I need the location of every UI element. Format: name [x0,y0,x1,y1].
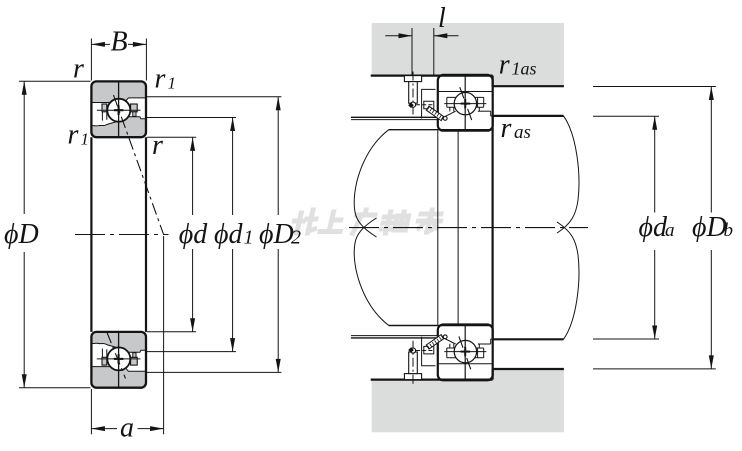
svg-text:1as: 1as [512,59,537,79]
shaft break curves left [354,130,389,237]
contact angle line [114,95,164,235]
svg-text:ϕd: ϕd [179,219,208,250]
a dimension [90,389,92,434]
phid dimension [147,136,196,138]
shang [320,212,345,232]
shaft sleeve lines (left of bearing) [351,116,438,118]
housing lower block [372,369,564,432]
shaft seat lines [389,129,493,131]
svg-text:ϕD: ϕD [4,219,39,250]
svg-text:l: l [438,3,446,34]
svg-text:r: r [68,120,79,151]
phi Db dimension [593,86,716,88]
phi da dimension [593,115,659,117]
svg-text:a: a [120,412,134,443]
right bottom bearing [438,325,493,381]
B dimension [90,39,92,81]
svg-text:r: r [152,130,163,161]
svg-text:1: 1 [81,130,90,149]
phid1 dimension [147,117,236,119]
shaft shoulder surfaces [493,115,564,117]
svg-text:ϕd: ϕd [214,219,243,250]
left bottom bearing [91,332,146,388]
oil nozzle top / bottom [404,72,447,121]
contact stub right top [460,87,473,122]
bore face lines [90,137,92,332]
svg-text:r: r [155,64,166,95]
svg-text:2: 2 [291,227,301,249]
watermark 北上广轴承 (drawn as strokes; CJK fonts unavailable) [292,210,443,233]
svg-text:B: B [110,27,127,58]
svg-text:ϕD: ϕD [259,219,294,250]
svg-text:r: r [501,113,512,144]
svg-text:ϕD: ϕD [692,212,727,243]
phiD2 dimension [147,96,281,98]
shaft break curves right [557,116,579,233]
svg-text:r: r [499,50,510,81]
contact stub bottom [107,332,126,379]
contact stub right bottom [459,336,471,370]
right drawing axis [349,227,588,229]
svg-text:as: as [514,122,531,143]
housing upper block [372,23,564,86]
svg-text:b: b [724,220,734,241]
left axis [75,234,169,236]
svg-text:1: 1 [168,74,177,93]
right top bearing [438,75,493,131]
svg-text:ϕd: ϕd [639,212,668,243]
phiD dimension [19,80,91,82]
guang [353,210,376,233]
l dimension [411,28,413,76]
zhou [381,212,410,233]
svg-text:r: r [73,54,84,85]
svg-text:a: a [665,220,675,241]
cheng [416,210,443,232]
bore face lines between bearings [437,131,439,325]
housing bore lines [371,74,493,76]
bei [292,210,319,233]
left top bearing [91,81,146,137]
svg-text:1: 1 [244,227,254,249]
shaft shoulder face [492,116,494,339]
